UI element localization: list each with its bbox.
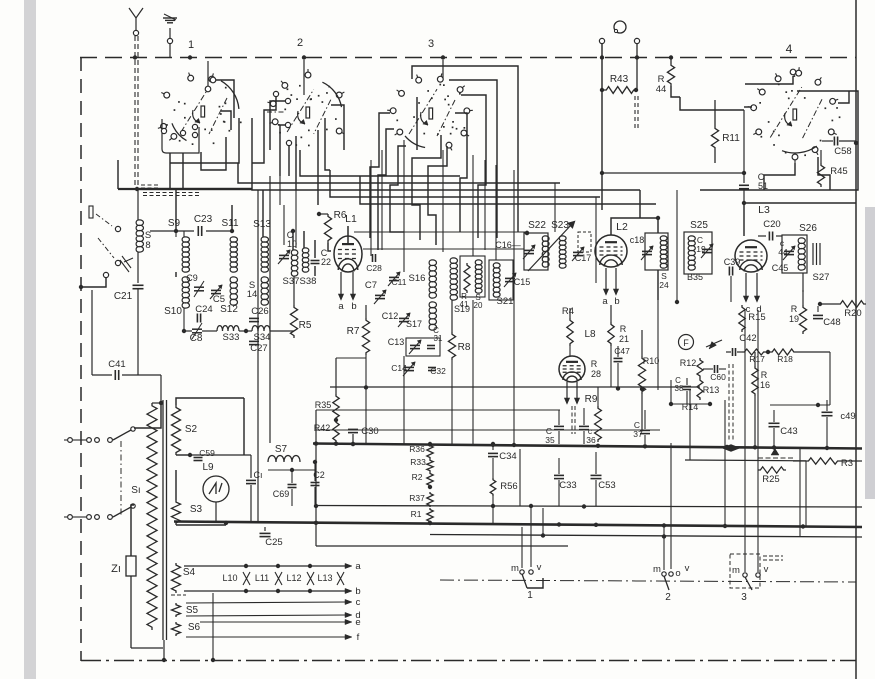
svg-text:3: 3 bbox=[741, 592, 747, 603]
variable capacitor C17 bbox=[573, 251, 583, 253]
vertical x602 lower bbox=[601, 173, 603, 340]
main bus B+ heavy bbox=[313, 444, 862, 449]
long vertical x443b bbox=[442, 150, 444, 252]
wire L3 row bbox=[743, 203, 745, 236]
svg-text:C59: C59 bbox=[199, 448, 215, 458]
svg-text:R18: R18 bbox=[777, 354, 793, 364]
svg-text:2: 2 bbox=[297, 37, 303, 49]
svg-text:R4: R4 bbox=[562, 306, 574, 317]
resistor R16 bbox=[754, 352, 756, 366]
long vertical x473 bbox=[472, 155, 474, 256]
svg-text:1: 1 bbox=[188, 39, 194, 51]
svg-text:C27: C27 bbox=[250, 343, 267, 354]
switch S rectangle contact bbox=[89, 206, 93, 218]
svg-text:C11: C11 bbox=[392, 277, 407, 287]
coil S11 winding bbox=[230, 237, 237, 272]
svg-text:C41: C41 bbox=[108, 359, 125, 370]
resistor R18 bbox=[770, 349, 796, 355]
resistor R4 bbox=[569, 308, 571, 318]
long vertical x371 bbox=[370, 160, 372, 256]
vertical x830 C58 wire bbox=[829, 352, 831, 405]
svg-text:f: f bbox=[357, 632, 360, 643]
svg-text:a: a bbox=[338, 301, 344, 312]
IF core triple lines S27 bbox=[812, 243, 814, 265]
svg-text:R9: R9 bbox=[585, 394, 598, 405]
dash-dot bottom link bbox=[440, 580, 856, 582]
wire R21 bottom down bbox=[610, 346, 612, 387]
ground symbol at top bbox=[169, 28, 171, 38]
wafer3 stem wire bbox=[442, 60, 444, 78]
svg-text:C53: C53 bbox=[598, 480, 615, 491]
dashed core S5 bbox=[171, 594, 186, 596]
bus junction dots bbox=[334, 442, 338, 446]
svg-text:16: 16 bbox=[760, 380, 770, 390]
terminal b bbox=[345, 590, 346, 592]
svg-text:C33: C33 bbox=[559, 480, 576, 491]
wire x602 down bbox=[601, 44, 603, 210]
trimmer C8 bbox=[192, 328, 202, 330]
capacitor C34 bbox=[492, 444, 494, 450]
wires S-bank interconnect bbox=[175, 190, 177, 231]
coil S26 box bbox=[782, 235, 807, 273]
coil S14 winding bbox=[261, 277, 268, 305]
capacitor C26 bbox=[249, 317, 259, 319]
resistor R20 bbox=[838, 301, 866, 308]
vertical feeds to switch3 bbox=[744, 310, 746, 572]
capacitor C2 bbox=[311, 482, 320, 484]
resistor R2 bbox=[427, 472, 433, 487]
wire wafer4 left contact bbox=[744, 106, 752, 108]
wire S2 bottom tap bbox=[176, 454, 190, 456]
long vertical x485 bbox=[484, 160, 486, 250]
svg-text:20: 20 bbox=[474, 301, 483, 310]
coil S16 bbox=[429, 260, 436, 298]
vertical x452 lower bbox=[451, 360, 453, 444]
wire tube3 top to C20 bbox=[758, 235, 766, 237]
variable capacitor C12 bbox=[399, 317, 409, 319]
resistor R43 bbox=[604, 87, 636, 94]
switch S dash-dot blades bbox=[96, 214, 112, 226]
svg-text:22: 22 bbox=[321, 257, 331, 267]
svg-text:1: 1 bbox=[527, 590, 533, 601]
vertical x316 bbox=[315, 410, 317, 546]
transformer secondary S6 bbox=[172, 622, 181, 636]
svg-text:R11: R11 bbox=[722, 133, 740, 144]
svg-text:C13: C13 bbox=[388, 337, 405, 347]
svg-text:R37: R37 bbox=[409, 493, 425, 503]
wire row y331 bbox=[184, 330, 192, 332]
wire W1 down-left bbox=[117, 160, 119, 189]
vertical x366 r7 bottom bbox=[365, 355, 367, 444]
box around C58 R45 bbox=[700, 91, 858, 190]
terminal d bbox=[186, 615, 346, 616]
svg-text:C7: C7 bbox=[365, 280, 377, 291]
svg-text:v: v bbox=[764, 564, 769, 575]
vertical x296 to S37 bbox=[295, 190, 297, 248]
svg-text:S25: S25 bbox=[690, 220, 708, 231]
vertical feeds to switch1 bbox=[521, 527, 523, 568]
capacitor C37 bbox=[640, 429, 650, 431]
wire R35 top bbox=[336, 357, 366, 359]
wire wafer3 loop c bbox=[461, 95, 486, 238]
resistor R3 bbox=[806, 458, 840, 464]
wire from border to S contact bbox=[81, 278, 106, 287]
svg-text:C69: C69 bbox=[273, 489, 290, 499]
left dashed border of chassis frame bbox=[80, 57, 82, 661]
svg-text:C58: C58 bbox=[834, 146, 851, 157]
svg-text:C48: C48 bbox=[823, 317, 840, 328]
wire under wafer1 c bbox=[182, 153, 184, 189]
wire bundle 4 bbox=[360, 176, 656, 204]
svg-text:S37: S37 bbox=[283, 276, 300, 287]
wire R56 to lower bus bbox=[492, 496, 494, 523]
wire under wafer2 g bbox=[325, 118, 330, 170]
junction S9 top bbox=[174, 229, 178, 233]
wire x637 down bbox=[636, 44, 638, 90]
variable capacitor C10 bbox=[279, 254, 289, 256]
capacitor C42 bbox=[732, 348, 734, 356]
wire S3 bbox=[175, 470, 177, 500]
wire R4 to L8 tube bbox=[569, 346, 571, 356]
svg-text:Cı: Cı bbox=[254, 470, 263, 480]
wire wafer2 contact d bbox=[288, 146, 290, 176]
svg-text:R: R bbox=[591, 359, 598, 369]
svg-text:R15: R15 bbox=[748, 312, 765, 323]
variable capacitor C19 bbox=[702, 248, 712, 250]
svg-text:m: m bbox=[653, 564, 661, 575]
junction x671 on frame bbox=[669, 55, 673, 59]
svg-text:a: a bbox=[355, 561, 361, 572]
coil S8 bbox=[137, 190, 139, 220]
wire wafer4 contact to C58 bbox=[838, 91, 849, 103]
capacitor C30 bbox=[348, 428, 358, 430]
junction x602 on frame bbox=[600, 55, 604, 59]
capacitor C35 bbox=[554, 425, 564, 427]
wire under wafer1 e bbox=[251, 118, 253, 189]
svg-text:8: 8 bbox=[145, 240, 150, 251]
transformer secondary S2 bbox=[172, 405, 181, 455]
capacitor C38 bbox=[683, 386, 691, 388]
wire C23 to S11 bbox=[206, 230, 232, 232]
svg-text:L13: L13 bbox=[317, 573, 332, 583]
wire under wafer1 b bbox=[169, 153, 171, 189]
resistor R35 bbox=[335, 358, 337, 394]
transformer secondary S4 bbox=[172, 563, 181, 593]
wire wafer1 contact mid right bbox=[221, 111, 231, 130]
wire wafer3 bottom nest d bbox=[412, 135, 441, 240]
main bus heavy lower bbox=[174, 522, 862, 528]
wafer4 vertical feed bbox=[743, 110, 745, 173]
tube V3 bbox=[735, 240, 767, 272]
svg-text:C32: C32 bbox=[430, 366, 446, 376]
resistor R44 bbox=[670, 57, 672, 63]
svg-text:S3: S3 bbox=[190, 504, 203, 515]
svg-text:R13: R13 bbox=[703, 385, 720, 395]
wire bundle 6 bbox=[639, 190, 641, 218]
svg-text:31: 31 bbox=[434, 334, 443, 343]
dash-dot link into wafer2 bbox=[267, 111, 285, 113]
dashed box around switch3 bbox=[730, 554, 760, 588]
svg-text:R33: R33 bbox=[410, 457, 426, 467]
vertical feeds to switch2 bbox=[663, 526, 665, 570]
wire wafer3 bottom f bbox=[416, 97, 418, 150]
capacitor C24 bbox=[196, 314, 198, 323]
switch S contacts left bbox=[115, 226, 120, 231]
rotary switch wafer section 3 bbox=[439, 84, 441, 86]
junction left of wire bbox=[657, 300, 659, 390]
capacitor C69 bbox=[288, 484, 297, 486]
wire R20 row bbox=[820, 303, 838, 305]
capacitor C23 bbox=[197, 226, 199, 236]
wire wafer3 left nest a bbox=[370, 113, 390, 238]
wire row y318 bbox=[183, 308, 185, 331]
junction on frame x443 bbox=[441, 55, 445, 59]
svg-text:C42: C42 bbox=[739, 333, 756, 344]
terminal a bbox=[345, 565, 346, 567]
fuse Z1 bbox=[126, 556, 136, 576]
svg-text:L2: L2 bbox=[616, 221, 628, 233]
wire L9 to bus bbox=[215, 502, 217, 522]
wafer2 left contacts bbox=[273, 91, 278, 96]
capacitor C48 bbox=[813, 314, 823, 316]
resistor R8 bbox=[451, 300, 453, 332]
svg-text:21: 21 bbox=[619, 334, 629, 344]
variable capacitor C7 bbox=[375, 294, 385, 296]
bus thin y460 right bbox=[685, 459, 806, 462]
svg-text:B35: B35 bbox=[687, 272, 703, 282]
svg-text:S38: S38 bbox=[300, 276, 317, 287]
svg-text:S12: S12 bbox=[220, 304, 238, 315]
wire C41 vertical bbox=[91, 290, 93, 375]
wire y410 segment bbox=[316, 409, 560, 411]
capacitor C21 bbox=[137, 252, 139, 283]
vertical x473 lower bbox=[472, 300, 474, 444]
svg-text:L11: L11 bbox=[255, 573, 269, 583]
capacitor C28 bbox=[372, 254, 374, 262]
tube L1 leads a b bbox=[340, 272, 342, 296]
wire wafer2 contact c bbox=[280, 125, 286, 176]
svg-text:S9: S9 bbox=[168, 218, 181, 229]
svg-text:L1: L1 bbox=[345, 213, 357, 225]
svg-text:C30: C30 bbox=[361, 426, 378, 437]
wire C48 top bbox=[817, 306, 819, 312]
svg-text:R56: R56 bbox=[500, 481, 517, 492]
svg-text:C24: C24 bbox=[195, 304, 212, 315]
svg-text:C26: C26 bbox=[251, 306, 268, 317]
resistor R6 bbox=[317, 212, 321, 216]
wire wafer3 outer loop right bbox=[412, 66, 518, 232]
svg-text:R2: R2 bbox=[412, 472, 423, 482]
capacitor C47 bbox=[614, 357, 623, 359]
resistor R7 bbox=[365, 305, 367, 318]
capacitor C58 bbox=[833, 137, 835, 146]
svg-text:2: 2 bbox=[665, 592, 671, 603]
vertical from box to S25 area bbox=[676, 190, 678, 302]
mains switch blade row2 bbox=[113, 507, 131, 517]
wire S2 top bbox=[176, 398, 244, 405]
svg-text:R17: R17 bbox=[749, 354, 765, 364]
terminal e bbox=[200, 621, 346, 623]
left gray page margin strip bbox=[24, 0, 36, 679]
wafer2 stem wire bbox=[303, 60, 305, 95]
capacitor C51 bbox=[743, 173, 745, 183]
resistor R19 bbox=[802, 290, 804, 305]
svg-text:S10: S10 bbox=[164, 306, 182, 317]
svg-text:R20: R20 bbox=[844, 308, 861, 319]
svg-text:S16: S16 bbox=[409, 273, 426, 284]
wire L3 to frame right bbox=[744, 202, 856, 204]
junction x658 y219 bbox=[354, 231, 527, 233]
right scan edge line bbox=[855, 0, 857, 679]
svg-text:S2: S2 bbox=[185, 424, 198, 435]
mechanical coupling dashes below R43 bbox=[634, 96, 636, 130]
coil S9 winding bbox=[182, 237, 189, 272]
vertical x800 below bus bbox=[799, 448, 801, 537]
extra dashes right of switch3 bbox=[763, 555, 783, 557]
wire S24 right bbox=[657, 218, 659, 233]
variable capacitor C44 bbox=[784, 250, 794, 252]
coil S38 bbox=[302, 248, 309, 272]
svg-text:C45: C45 bbox=[772, 263, 789, 273]
svg-text:R7: R7 bbox=[347, 326, 360, 337]
S22 box with C16 bbox=[524, 233, 548, 270]
heavy ganged-switch link bar bbox=[118, 188, 252, 190]
svg-text:R: R bbox=[791, 304, 798, 314]
wire tube L1 to S22 AVC line bbox=[363, 248, 524, 250]
capacitor C20 bbox=[768, 232, 770, 241]
svg-text:R43: R43 bbox=[610, 74, 629, 85]
svg-text:L8: L8 bbox=[584, 329, 596, 340]
arrow near F bbox=[706, 340, 722, 347]
svg-text:S7: S7 bbox=[275, 444, 288, 455]
wafer1 stem wire bbox=[207, 61, 209, 86]
resistor R45 bbox=[820, 150, 822, 163]
trimmer C9 bbox=[194, 286, 204, 288]
coil S17 bbox=[429, 302, 436, 330]
svg-text:S33: S33 bbox=[223, 332, 240, 343]
wire switch2 to fuse bbox=[131, 505, 134, 556]
capacitor C59 bbox=[194, 457, 203, 459]
transformer core lines bbox=[162, 400, 164, 640]
wire wafer1 upper contact right bbox=[216, 80, 234, 118]
S24 box coil bbox=[645, 233, 668, 270]
resistor R25 bbox=[758, 467, 786, 473]
variable capacitor C18 bbox=[642, 250, 652, 252]
junction antenna to bar bbox=[135, 187, 139, 191]
dash-dot mech link switches bbox=[120, 441, 122, 516]
svg-text:m: m bbox=[511, 563, 519, 574]
capacitor C1 bbox=[250, 455, 252, 478]
switch1 wire right bbox=[527, 578, 543, 588]
wire wafer2 right contact bbox=[331, 105, 344, 150]
antenna lead-in dashed wire bbox=[134, 36, 136, 190]
wire wafer2 contact a bbox=[252, 97, 276, 163]
wire C60 row bbox=[703, 368, 713, 370]
svg-text:C15: C15 bbox=[514, 277, 531, 287]
resistor R15 bbox=[739, 305, 745, 332]
vertical to C10 top bbox=[283, 205, 285, 245]
wire wafer2 contact b bbox=[270, 101, 285, 150]
svg-text:L9: L9 bbox=[202, 462, 214, 473]
bold junction arrows on bus bbox=[722, 445, 731, 452]
long vertical x514 bbox=[513, 170, 515, 443]
resistor R41 bbox=[464, 263, 470, 293]
wire R44 to wafer4 bbox=[671, 86, 680, 97]
svg-text:v: v bbox=[537, 562, 542, 573]
wire switch1 to transformer bbox=[134, 403, 161, 428]
wire top-right from x602 down to C51 bbox=[600, 171, 604, 175]
svg-text:c18: c18 bbox=[630, 235, 645, 245]
rotary switch wafer section 2 bbox=[318, 95, 320, 97]
svg-text:a: a bbox=[602, 296, 608, 307]
svg-text:b: b bbox=[355, 586, 360, 597]
resistor R33 bbox=[427, 459, 433, 472]
top dashed border of chassis frame bbox=[80, 57, 856, 59]
rotary switch wafer section 4 bbox=[759, 102, 761, 104]
wire S1 top bbox=[152, 402, 161, 404]
svg-text:S27: S27 bbox=[813, 272, 830, 283]
svg-text:L10: L10 bbox=[222, 573, 237, 583]
wire wafer3 bottom nest e bbox=[428, 146, 447, 245]
wire y430 bbox=[316, 429, 660, 431]
wire bundle 5 bbox=[300, 150, 460, 176]
svg-text:R10: R10 bbox=[643, 356, 660, 366]
svg-text:C21: C21 bbox=[114, 291, 133, 302]
capacitor C32 bbox=[428, 367, 436, 369]
svg-text:C23: C23 bbox=[194, 214, 213, 225]
svg-text:b: b bbox=[614, 296, 619, 307]
svg-text:L3: L3 bbox=[758, 204, 770, 216]
wire bundle 3 bbox=[330, 170, 600, 197]
capacitor C22 bbox=[311, 260, 320, 262]
junction y405 bbox=[816, 403, 820, 407]
bottom dash-dot border of chassis frame bbox=[81, 660, 856, 662]
wire S2 right to C1 bbox=[190, 454, 251, 456]
wire C39 down bbox=[730, 276, 732, 302]
variable capacitor C14 bbox=[404, 366, 414, 368]
wire R17 left bbox=[737, 351, 742, 353]
capacitor C49 bbox=[822, 411, 833, 413]
capacitor C60 bbox=[714, 365, 716, 373]
terminal f bbox=[186, 636, 346, 638]
svg-text:C43: C43 bbox=[780, 426, 797, 437]
wire under wafer2 e bbox=[295, 136, 297, 190]
long vertical x496 bbox=[495, 165, 497, 260]
svg-text:F: F bbox=[683, 338, 689, 348]
svg-text:R3: R3 bbox=[841, 458, 853, 469]
coil S25 box bbox=[684, 232, 712, 274]
svg-text:L12: L12 bbox=[286, 573, 301, 583]
svg-text:14: 14 bbox=[247, 289, 258, 300]
wire wafer4 lower contacts bbox=[764, 163, 795, 190]
wire S9 row bbox=[150, 230, 194, 232]
variable capacitor C15 bbox=[505, 277, 515, 279]
capacitor C27 bbox=[249, 340, 259, 342]
transformer secondary S3 bbox=[172, 500, 181, 525]
bus thin y546 bbox=[316, 545, 568, 547]
coupling dashed box bbox=[578, 232, 591, 252]
wire ground terminal to frame bbox=[169, 44, 171, 57]
coil S12 winding bbox=[230, 277, 237, 305]
svg-text:e: e bbox=[355, 617, 360, 628]
wire S26 to R19 bbox=[802, 273, 804, 292]
junction on frame x190 bbox=[188, 55, 192, 59]
svg-text:R1: R1 bbox=[411, 509, 422, 519]
vertical x690 down bbox=[689, 390, 691, 460]
svg-text:24: 24 bbox=[659, 280, 669, 290]
wire S9-S10 box bbox=[175, 272, 177, 277]
svg-text:S11: S11 bbox=[221, 218, 238, 229]
